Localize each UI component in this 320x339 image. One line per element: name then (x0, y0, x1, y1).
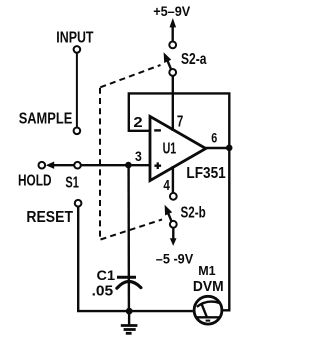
wire junction through C1 to ground rail (127, 165, 130, 311)
switch S1 wiper terminal (74, 162, 81, 169)
svg-text:+5–9V: +5–9V (153, 3, 191, 19)
svg-text:C1: C1 (97, 267, 116, 283)
svg-text:INPUT: INPUT (56, 29, 93, 46)
supply -5-9V arrowhead (170, 238, 177, 246)
meter M1 tick (206, 320, 211, 322)
ground bar 1 (121, 324, 138, 327)
svg-text:HOLD: HOLD (18, 172, 52, 189)
wire INPUT to SAMPLE (76, 53, 78, 128)
meter M1 needle (202, 305, 207, 318)
svg-text:U1: U1 (163, 140, 177, 157)
wire RESET to ground rail (78, 207, 193, 312)
supply +5-9V arrow shaft (171, 26, 173, 41)
svg-text:LF351: LF351 (186, 165, 225, 182)
switch S1 wiper arm (53, 164, 74, 166)
op-amp minus sign (154, 129, 161, 131)
ground bar 3 (126, 332, 132, 335)
terminal INPUT (74, 46, 81, 53)
capacitor C1 top plate (117, 276, 136, 279)
junction node output (226, 145, 233, 152)
switch S2-b arm (168, 212, 172, 221)
terminal HOLD (39, 162, 46, 169)
ground stub (128, 311, 130, 325)
svg-text:SAMPLE: SAMPLE (19, 111, 73, 128)
switch S2-a bottom terminal (169, 69, 176, 76)
svg-text:S2-b: S2-b (181, 205, 206, 222)
svg-text:S2-a: S2-a (181, 51, 206, 68)
junction node pin3/C1 (125, 162, 132, 169)
junction node ground rail (126, 308, 133, 315)
switch S2-a arm (167, 60, 171, 70)
svg-text:M1: M1 (198, 263, 215, 278)
switch S2-b bottom terminal (170, 221, 177, 228)
wire feedback: pin2 left-up-over to output and down to meter (129, 93, 230, 310)
dashed gang link S2-a diagonal (100, 65, 160, 87)
wire output pin6 (206, 147, 230, 149)
switch S1 arrowhead (46, 162, 54, 169)
svg-text:DVM: DVM (193, 279, 224, 295)
meter M1 body (194, 296, 222, 324)
dashed gang link vertical (99, 88, 101, 239)
svg-text:RESET: RESET (26, 209, 73, 226)
svg-text:.05: .05 (92, 284, 114, 300)
switch S2-b arm arrowhead (165, 205, 173, 216)
meter M1 scale arc (197, 302, 221, 307)
wire pin 4 to S2-b (172, 166, 174, 193)
capacitor C1 bottom plate (117, 281, 141, 288)
svg-text:–5 -9V: –5 -9V (156, 251, 194, 267)
terminal SAMPLE (74, 128, 81, 135)
dashed gang link S2-b diagonal (101, 220, 163, 240)
wire S1 to pin 3 (81, 164, 151, 166)
switch S2-b top terminal (pin 4) (170, 193, 177, 200)
svg-text:S1: S1 (65, 175, 79, 192)
supply -5-9V arrow shaft (172, 228, 174, 240)
op-amp U1 (150, 116, 206, 180)
meter M1 base chord (197, 316, 222, 318)
svg-text:7: 7 (177, 114, 183, 131)
terminal RESET (75, 200, 82, 207)
switch S2-a arm arrowhead (164, 52, 172, 63)
svg-text:3: 3 (135, 148, 142, 164)
svg-text:6: 6 (211, 130, 217, 145)
supply +5-9V arrowhead (170, 18, 177, 27)
svg-text:2: 2 (133, 115, 142, 131)
op-amp plus sign (154, 162, 161, 169)
ground bar 2 (124, 328, 136, 331)
svg-text:4: 4 (163, 178, 170, 194)
wire pin 7 to S2-a (172, 76, 174, 131)
switch S2-a top terminal (169, 42, 176, 49)
